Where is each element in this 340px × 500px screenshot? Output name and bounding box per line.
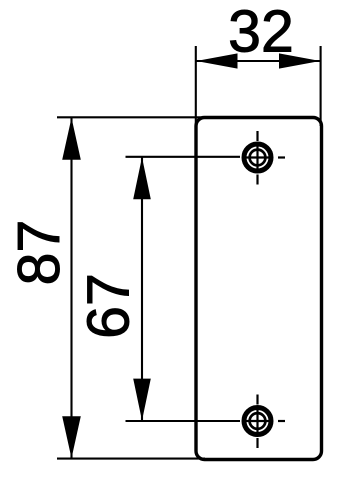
dim 87 dimension line bbox=[70, 118, 72, 459]
dim 32 arrowhead left bbox=[196, 53, 237, 68]
dim 87 arrowhead up bbox=[62, 118, 81, 160]
svg-text:32: 32 bbox=[228, 0, 294, 65]
hole H1 centerline dash top bbox=[256, 131, 258, 141]
hole H1 centerline cross bbox=[244, 144, 272, 172]
hole H2 centerline dash top bbox=[256, 395, 258, 405]
hole H1 outer ring bbox=[244, 144, 271, 171]
svg-text:87: 87 bbox=[6, 220, 72, 286]
dim 32 dimension line bbox=[196, 60, 320, 62]
hole H1 centerline dash right bbox=[278, 156, 285, 158]
dim 67 dimension line bbox=[141, 157, 143, 421]
hole H2 centerline cross bbox=[244, 407, 272, 435]
dim 32 extension line right bbox=[320, 46, 322, 126]
plate outline bbox=[196, 118, 322, 460]
hole H2 outer ring bbox=[244, 408, 271, 435]
hole H2 centerline dash right bbox=[278, 420, 285, 422]
dim 87 extension line top bbox=[57, 116, 205, 118]
hole H2 centerline dash bottom bbox=[256, 438, 258, 448]
dim 87 extension line bottom bbox=[57, 458, 205, 460]
dim 67 arrowhead down bbox=[133, 379, 151, 421]
dim 32 extension line left bbox=[195, 46, 197, 131]
dim 67 extension line top bbox=[126, 156, 241, 158]
hole H1 inner circle bbox=[250, 150, 266, 166]
hole H2 inner circle bbox=[250, 413, 266, 429]
dim 87 arrowhead down bbox=[62, 416, 81, 458]
svg-text:67: 67 bbox=[76, 273, 142, 339]
dim 32 arrowhead right bbox=[279, 53, 320, 68]
hole H1 centerline dash bottom bbox=[256, 175, 258, 185]
dim 67 arrowhead up bbox=[133, 157, 151, 199]
dim 67 extension line bottom bbox=[126, 420, 241, 422]
